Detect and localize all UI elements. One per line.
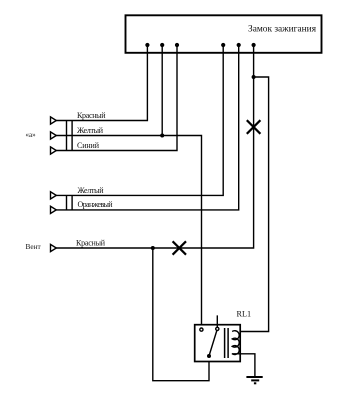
wire: pin1 down and left to red connector (Красный): [56, 45, 147, 121]
connector arrow Красный (Вент): [51, 244, 57, 251]
svg-text:Вент: Вент: [26, 242, 42, 251]
wire: pin5 down and left to orange connector (Оранжевый): [56, 45, 239, 210]
node pin1: [145, 43, 149, 47]
wire: from junction down, right, up to relay common contact: [153, 248, 209, 381]
node junction on pin6 wire: [252, 75, 256, 79]
connector arrow Желтый (group 1): [51, 132, 57, 139]
node junction on yellow wire: [160, 134, 164, 138]
connector arrow Синий (group 1): [51, 147, 57, 154]
wire: relay coil bottom to ground: [232, 354, 255, 377]
wire: pin3 down and left to blue connector (Синий): [56, 45, 177, 151]
connector ticks group 2: [66, 195, 68, 210]
wire: pin6 down then left along red (Вент) wire to connector: [56, 45, 254, 248]
relay switch lever: [209, 315, 217, 356]
relay lever contact: [216, 327, 219, 330]
svg-text:«а»: «а»: [26, 131, 37, 139]
cut mark X on red Вент wire: [173, 241, 186, 254]
relay coil core bars: [224, 328, 226, 358]
wire: pin2 down to yellow wire junction: [161, 45, 163, 136]
svg-text:Желтый: Желтый: [78, 186, 105, 195]
cut mark X on pin6 vertical wire: [247, 120, 261, 134]
node junction on red Вент wire: [151, 246, 155, 250]
connector ticks group 1: [66, 121, 68, 151]
relay fixed contact left: [200, 328, 203, 331]
svg-text:Красный: Красный: [76, 239, 106, 248]
node pin4: [221, 43, 225, 47]
svg-text:RL1: RL1: [237, 310, 252, 319]
svg-text:Красный: Красный: [77, 111, 106, 120]
svg-text:Замок зажигания: Замок зажигания: [248, 25, 317, 35]
relay common contact node: [207, 354, 211, 358]
relay RL1 box: [195, 325, 241, 362]
svg-text:Оранжевый: Оранжевый: [78, 200, 114, 209]
relay coil loops: [232, 331, 239, 355]
wire: yellow wire (Желтый) from connector right then down to relay contact: [56, 136, 202, 328]
node pin6: [252, 43, 256, 47]
connector arrow Желтый (group 2): [51, 192, 57, 199]
connector arrow Оранжевый (group 2): [51, 206, 57, 213]
node pin2: [160, 43, 164, 47]
node pin3: [175, 43, 179, 47]
svg-text:Желтый: Желтый: [77, 126, 104, 135]
ignition lock box "Замок зажигания": [126, 15, 322, 53]
ground symbol: [246, 377, 262, 383]
wire: branch from pin6 wire to relay coil top: [232, 77, 269, 332]
node pin5: [237, 43, 241, 47]
connector arrow Красный (group 1): [51, 117, 57, 124]
wire: pin4 down and left to yellow connector 2 (Желтый): [56, 45, 223, 195]
svg-text:Синий: Синий: [77, 141, 100, 150]
